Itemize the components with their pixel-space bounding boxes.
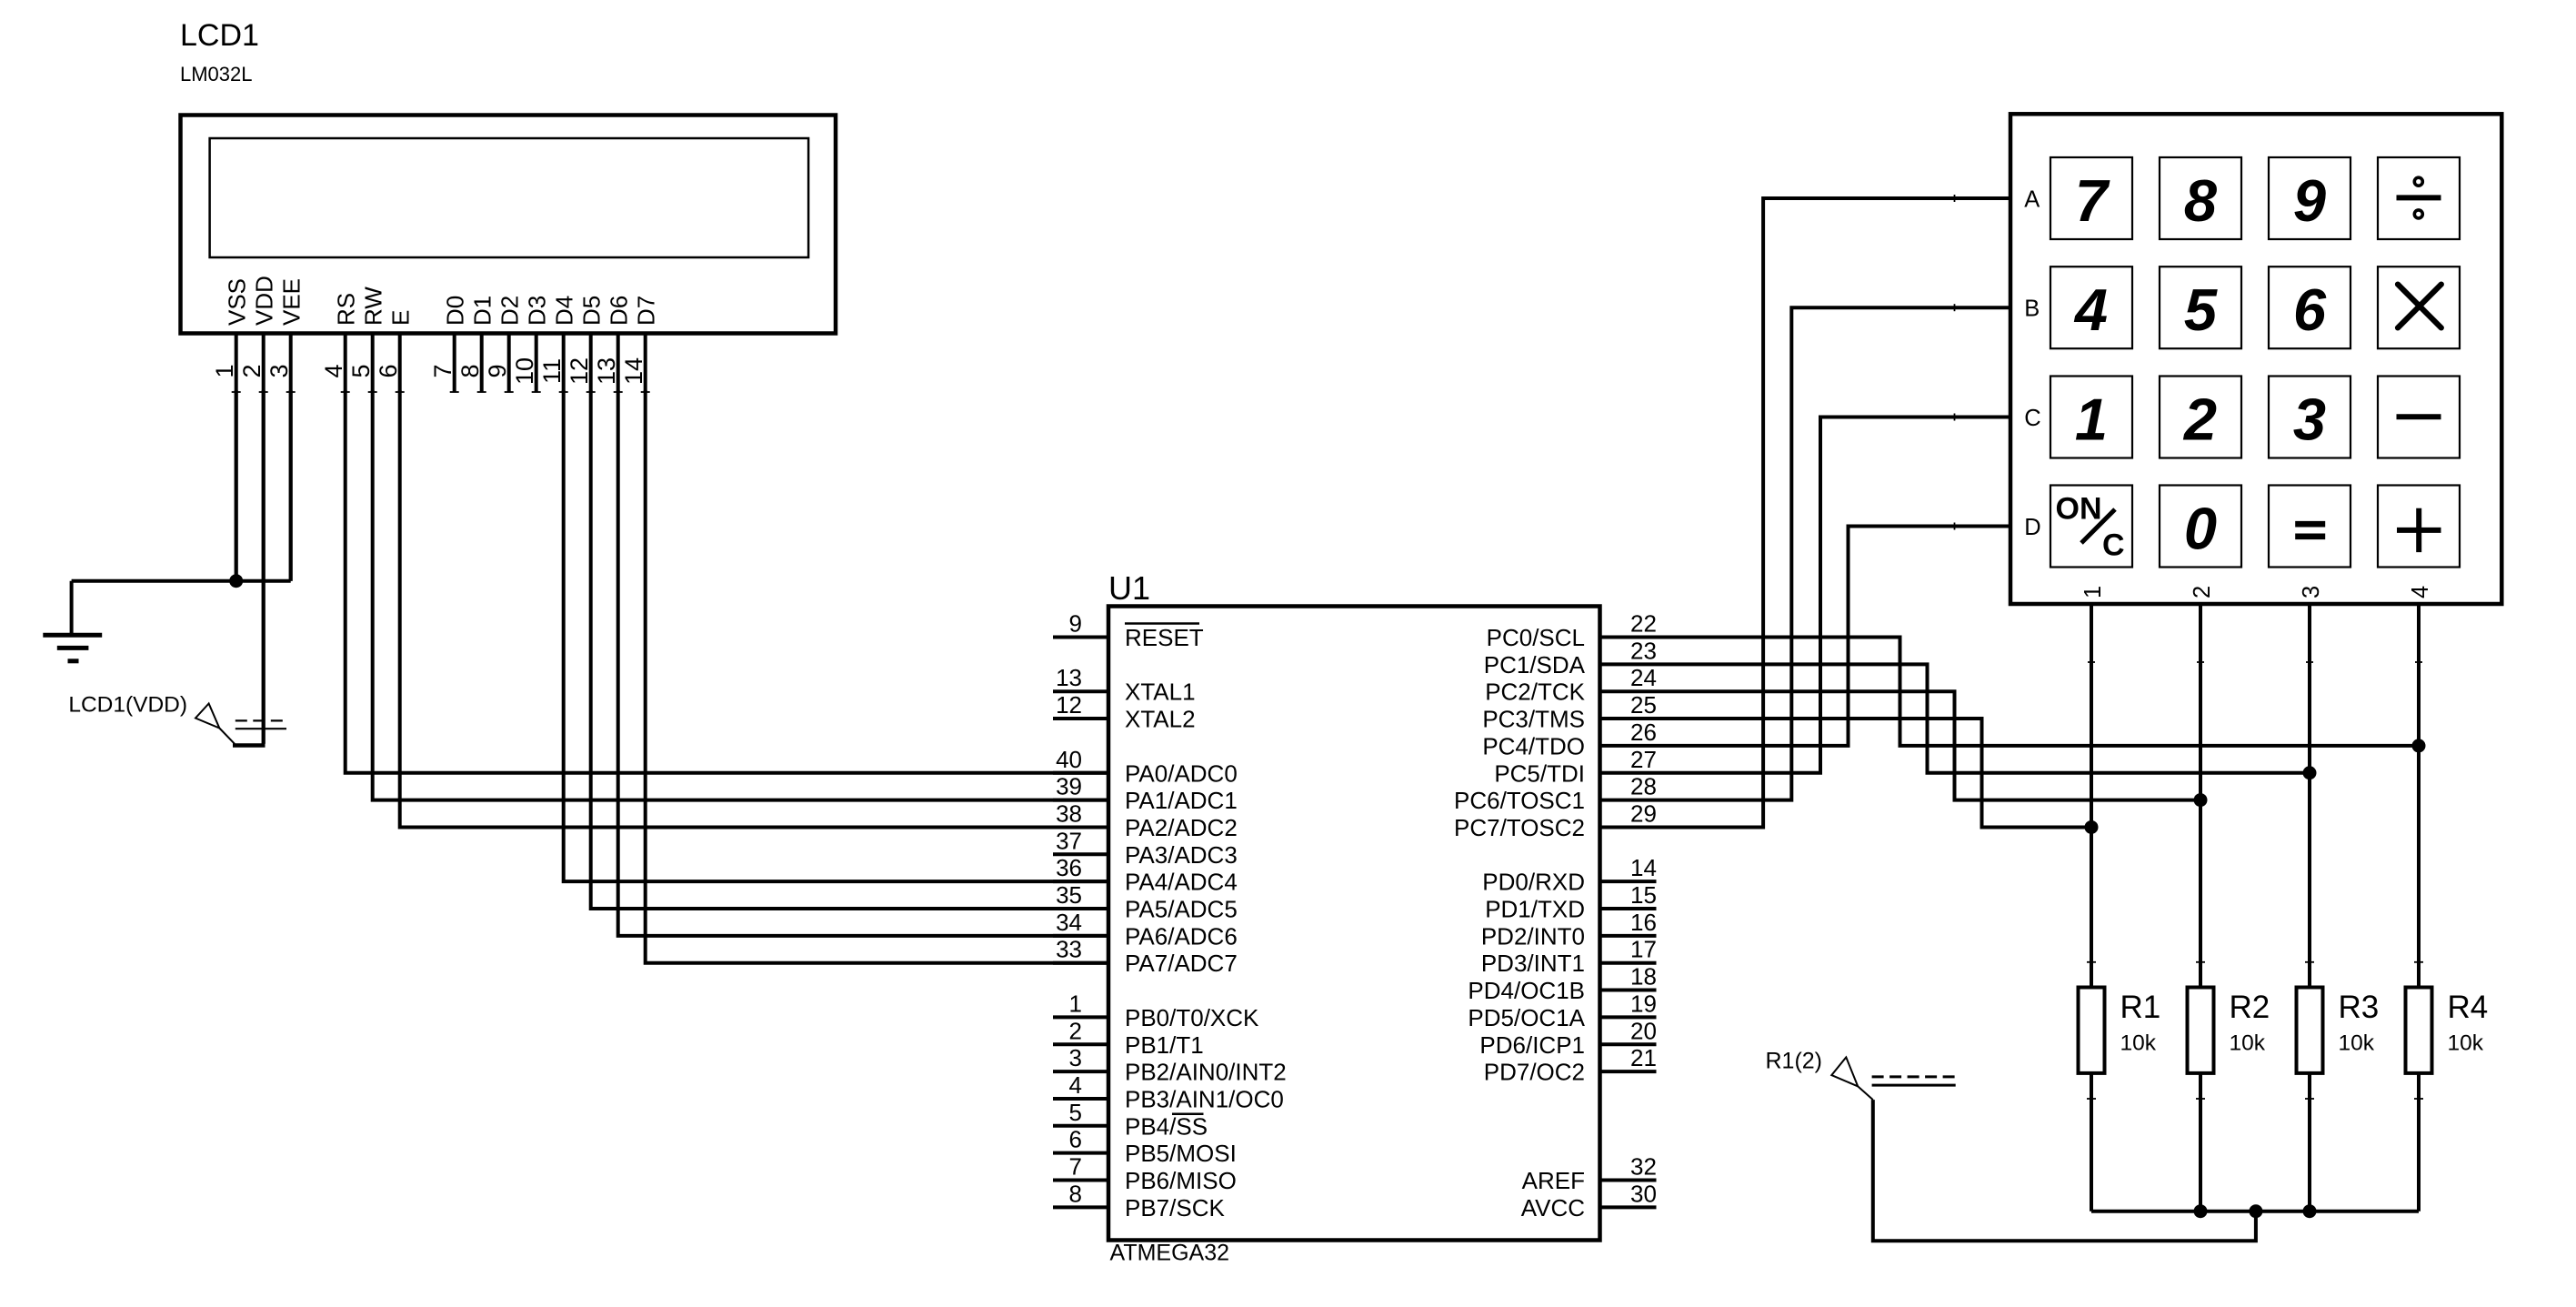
svg-text:19: 19	[1630, 990, 1657, 1017]
svg-text:33: 33	[1056, 936, 1082, 963]
svg-text:PB5/MOSI: PB5/MOSI	[1125, 1140, 1237, 1167]
svg-text:PA2/ADC2: PA2/ADC2	[1125, 814, 1238, 841]
svg-text:18: 18	[1630, 963, 1657, 990]
svg-text:A: A	[2024, 186, 2040, 212]
svg-text:9: 9	[1069, 610, 1082, 638]
svg-text:9: 9	[2293, 167, 2326, 234]
svg-text:8: 8	[1069, 1180, 1082, 1207]
svg-text:30: 30	[1630, 1180, 1657, 1207]
svg-text:10k: 10k	[2339, 1031, 2375, 1056]
svg-text:37: 37	[1056, 827, 1082, 854]
svg-text:2: 2	[2182, 387, 2217, 453]
svg-text:C: C	[2102, 528, 2125, 563]
svg-text:14: 14	[1630, 854, 1657, 881]
svg-text:RW: RW	[360, 287, 387, 326]
svg-text:10k: 10k	[2230, 1031, 2266, 1056]
svg-text:PB3/AIN1/OC0: PB3/AIN1/OC0	[1125, 1085, 1284, 1112]
svg-text:PC4/TDO: PC4/TDO	[1482, 732, 1585, 759]
svg-text:PC1/SDA: PC1/SDA	[1484, 651, 1586, 679]
svg-text:D7: D7	[633, 296, 660, 326]
svg-text:3: 3	[2299, 586, 2324, 598]
svg-text:PD6/ICP1: PD6/ICP1	[1479, 1031, 1585, 1059]
svg-text:35: 35	[1056, 881, 1082, 909]
svg-text:B: B	[2024, 297, 2040, 322]
svg-text:VSS: VSS	[224, 278, 251, 326]
svg-text:E: E	[387, 310, 415, 326]
svg-text:VEE: VEE	[278, 278, 306, 326]
svg-text:20: 20	[1630, 1017, 1657, 1044]
svg-text:2: 2	[2190, 586, 2215, 598]
svg-text:21: 21	[1630, 1044, 1657, 1071]
svg-text:6: 6	[2293, 276, 2327, 343]
svg-text:D3: D3	[524, 296, 551, 326]
svg-text:34: 34	[1056, 909, 1082, 936]
svg-text:PB7/SCK: PB7/SCK	[1125, 1194, 1225, 1222]
svg-text:AREF: AREF	[1522, 1167, 1585, 1194]
svg-text:29: 29	[1630, 799, 1657, 827]
svg-text:C: C	[2024, 406, 2040, 431]
svg-text:PD3/INT1: PD3/INT1	[1481, 950, 1585, 977]
svg-text:PB4/SS: PB4/SS	[1125, 1112, 1208, 1140]
svg-text:PA7/ADC7: PA7/ADC7	[1125, 950, 1238, 977]
svg-text:PD7/OC2: PD7/OC2	[1484, 1059, 1585, 1086]
svg-text:PB6/MISO: PB6/MISO	[1125, 1167, 1237, 1194]
svg-text:RESET: RESET	[1125, 624, 1204, 651]
svg-text:1: 1	[2075, 387, 2108, 453]
svg-text:U1: U1	[1108, 569, 1150, 607]
svg-text:5: 5	[2184, 276, 2218, 343]
svg-text:27: 27	[1630, 746, 1657, 773]
svg-text:PA1/ADC1: PA1/ADC1	[1125, 787, 1238, 814]
svg-text:AVCC: AVCC	[1521, 1194, 1585, 1222]
svg-text:4: 4	[2408, 586, 2433, 598]
svg-text:28: 28	[1630, 773, 1657, 800]
svg-text:17: 17	[1630, 936, 1657, 963]
svg-text:PB0/T0/XCK: PB0/T0/XCK	[1125, 1004, 1259, 1031]
svg-text:PC3/TMS: PC3/TMS	[1482, 706, 1585, 733]
svg-text:D4: D4	[551, 296, 578, 326]
svg-text:26: 26	[1630, 719, 1657, 746]
svg-text:PC6/TOSC1: PC6/TOSC1	[1454, 787, 1585, 814]
svg-text:13: 13	[1056, 664, 1082, 691]
svg-text:15: 15	[1630, 881, 1657, 909]
svg-text:D6: D6	[606, 296, 633, 326]
svg-text:32: 32	[1630, 1153, 1657, 1181]
svg-text:PB2/AIN0/INT2: PB2/AIN0/INT2	[1125, 1059, 1287, 1086]
svg-text:R1: R1	[2120, 990, 2161, 1025]
svg-text:LCD1: LCD1	[180, 18, 259, 53]
svg-text:2: 2	[1069, 1017, 1082, 1044]
svg-text:D5: D5	[578, 296, 606, 326]
svg-text:1: 1	[1069, 990, 1082, 1017]
svg-text:PD2/INT0: PD2/INT0	[1481, 922, 1585, 950]
svg-text:XTAL2: XTAL2	[1125, 706, 1196, 733]
svg-text:1: 1	[2080, 586, 2106, 598]
svg-text:3: 3	[2293, 387, 2326, 453]
svg-text:38: 38	[1056, 799, 1082, 827]
svg-text:8: 8	[2184, 167, 2218, 234]
svg-text:PC0/SCL: PC0/SCL	[1487, 624, 1585, 651]
svg-text:PB1/T1: PB1/T1	[1125, 1031, 1204, 1059]
svg-text:7: 7	[1069, 1153, 1082, 1181]
svg-text:PC7/TOSC2: PC7/TOSC2	[1454, 814, 1585, 841]
svg-text:3: 3	[1069, 1044, 1082, 1071]
svg-text:PD5/OC1A: PD5/OC1A	[1468, 1004, 1585, 1031]
svg-text:RS: RS	[333, 293, 360, 326]
svg-text:16: 16	[1630, 909, 1657, 936]
svg-text:R3: R3	[2339, 990, 2380, 1025]
svg-text:LCD1(VDD): LCD1(VDD)	[68, 693, 187, 718]
svg-text:D1: D1	[469, 296, 496, 326]
svg-text:ATMEGA32: ATMEGA32	[1110, 1241, 1230, 1266]
svg-text:R1(2): R1(2)	[1765, 1049, 1822, 1074]
svg-text:D0: D0	[442, 296, 469, 326]
svg-text:40: 40	[1056, 746, 1082, 773]
svg-text:4: 4	[1069, 1071, 1082, 1099]
svg-text:PA6/ADC6: PA6/ADC6	[1125, 922, 1238, 950]
svg-text:PA4/ADC4: PA4/ADC4	[1125, 869, 1238, 896]
svg-text:D2: D2	[496, 296, 524, 326]
svg-text:36: 36	[1056, 854, 1082, 881]
svg-text:25: 25	[1630, 691, 1657, 719]
svg-text:LM032L: LM032L	[180, 63, 253, 85]
svg-text:VDD: VDD	[251, 276, 278, 326]
svg-text:R4: R4	[2448, 990, 2489, 1025]
svg-text:PA3/ADC3: PA3/ADC3	[1125, 841, 1238, 869]
svg-text:22: 22	[1630, 610, 1657, 638]
svg-text:PD1/TXD: PD1/TXD	[1485, 896, 1585, 923]
svg-text:PC2/TCK: PC2/TCK	[1485, 679, 1585, 706]
svg-text:D: D	[2024, 515, 2040, 540]
svg-text:10k: 10k	[2448, 1031, 2484, 1056]
svg-text:PD0/RXD: PD0/RXD	[1482, 869, 1585, 896]
svg-text:PC5/TDI: PC5/TDI	[1494, 759, 1585, 787]
svg-text:4: 4	[2073, 276, 2108, 343]
svg-text:0: 0	[2184, 496, 2217, 562]
svg-text:XTAL1: XTAL1	[1125, 679, 1196, 706]
svg-text:PD4/OC1B: PD4/OC1B	[1468, 977, 1585, 1004]
svg-text:R2: R2	[2230, 990, 2270, 1025]
svg-text:24: 24	[1630, 664, 1657, 691]
svg-text:23: 23	[1630, 637, 1657, 664]
svg-text:10k: 10k	[2120, 1031, 2157, 1056]
svg-text:7: 7	[2075, 167, 2110, 234]
svg-text:39: 39	[1056, 773, 1082, 800]
svg-text:6: 6	[1069, 1126, 1082, 1153]
svg-text:PA5/ADC5: PA5/ADC5	[1125, 896, 1238, 923]
svg-text:5: 5	[1069, 1099, 1082, 1126]
svg-text:12: 12	[1056, 691, 1082, 719]
svg-text:PA0/ADC0: PA0/ADC0	[1125, 759, 1238, 787]
svg-text:ON: ON	[2056, 492, 2102, 527]
